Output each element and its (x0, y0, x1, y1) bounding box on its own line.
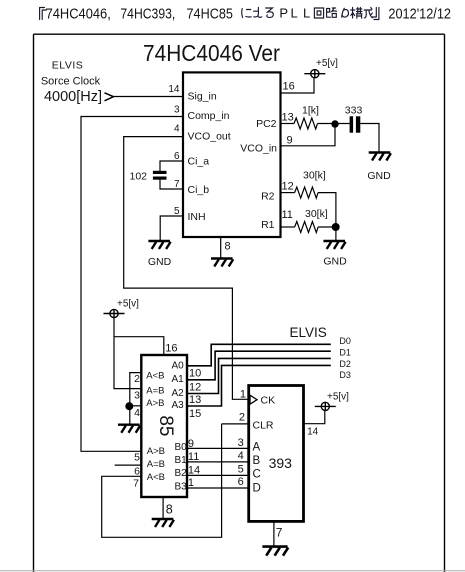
svg-text:74HC393,: 74HC393, (120, 7, 175, 23)
svg-text:GND: GND (367, 170, 391, 182)
svg-text:D3: D3 (339, 370, 351, 380)
svg-text:4: 4 (174, 124, 180, 135)
svg-text:6: 6 (174, 151, 180, 162)
svg-text:2012'12/12: 2012'12/12 (388, 7, 451, 23)
svg-text:15: 15 (189, 408, 201, 420)
svg-text:A1: A1 (172, 374, 185, 385)
svg-text:14: 14 (188, 464, 200, 476)
svg-text:+5[v]: +5[v] (316, 58, 338, 69)
svg-text:30[k]: 30[k] (303, 170, 326, 182)
svg-text:ELVIS: ELVIS (290, 325, 327, 340)
svg-text:C: C (253, 469, 261, 481)
svg-text:3: 3 (174, 105, 180, 116)
svg-text:7: 7 (133, 478, 139, 490)
svg-text:ELVIS: ELVIS (52, 60, 84, 72)
svg-text:B1: B1 (175, 455, 188, 466)
svg-text:13: 13 (189, 394, 201, 406)
svg-text:6: 6 (238, 476, 244, 488)
svg-text:VCO_out: VCO_out (188, 131, 231, 143)
svg-text:2: 2 (134, 373, 140, 385)
svg-text:30[k]: 30[k] (305, 208, 328, 220)
svg-text:14: 14 (168, 84, 180, 95)
svg-text:13: 13 (282, 112, 294, 124)
svg-text:INH: INH (188, 211, 206, 223)
svg-text:11: 11 (282, 209, 293, 221)
svg-text:PC2: PC2 (256, 118, 277, 130)
svg-text:5: 5 (134, 452, 140, 464)
svg-text:R1: R1 (261, 219, 275, 231)
svg-text:8: 8 (166, 503, 173, 517)
svg-text:12: 12 (282, 181, 294, 193)
svg-text:D: D (253, 483, 261, 495)
svg-text:16: 16 (165, 343, 177, 355)
svg-text:D2: D2 (339, 359, 351, 369)
svg-text:CK: CK (261, 395, 276, 407)
svg-text:A>B: A>B (146, 398, 164, 409)
svg-text:10: 10 (189, 368, 201, 380)
svg-text:393: 393 (269, 455, 293, 471)
svg-text:A0: A0 (172, 361, 185, 372)
svg-text:B0: B0 (175, 442, 188, 453)
svg-text:85: 85 (155, 415, 176, 436)
svg-text:74HC85: 74HC85 (187, 7, 233, 23)
svg-text:B3: B3 (175, 481, 188, 492)
svg-text:12: 12 (189, 381, 201, 393)
svg-text:VCO_in: VCO_in (240, 143, 277, 155)
svg-text:GND: GND (323, 256, 347, 268)
svg-text:14: 14 (307, 427, 319, 438)
svg-text:A: A (253, 442, 261, 454)
svg-text:L: L (303, 6, 310, 21)
svg-text:Ci_b: Ci_b (188, 184, 210, 196)
svg-text:D0: D0 (339, 336, 351, 346)
svg-text:1: 1 (240, 389, 246, 401)
svg-text:8: 8 (225, 241, 231, 253)
svg-text:2: 2 (239, 412, 245, 424)
svg-text:A3: A3 (172, 400, 185, 411)
svg-text:333: 333 (345, 105, 363, 117)
svg-text:1: 1 (188, 477, 194, 489)
svg-text:7: 7 (276, 526, 283, 540)
svg-text:B2: B2 (175, 468, 188, 479)
svg-text:11: 11 (188, 451, 199, 463)
svg-text:4: 4 (238, 450, 244, 462)
svg-text:102: 102 (130, 171, 148, 183)
svg-text:6: 6 (134, 465, 140, 477)
svg-text:A<B: A<B (147, 472, 165, 483)
svg-text:5: 5 (174, 206, 180, 217)
svg-text:1[k]: 1[k] (302, 105, 319, 117)
svg-text:16: 16 (283, 81, 295, 93)
svg-text:+5[v]: +5[v] (117, 299, 139, 310)
svg-text:9: 9 (188, 438, 194, 450)
svg-text:D1: D1 (339, 347, 351, 357)
svg-text:Ci_a: Ci_a (188, 156, 210, 168)
svg-text:GND: GND (148, 256, 172, 268)
svg-text:74HC4046,: 74HC4046, (46, 7, 111, 23)
svg-text:4: 4 (134, 407, 140, 419)
svg-text:4000[Hz]: 4000[Hz] (44, 89, 102, 105)
svg-text:L: L (291, 6, 298, 21)
svg-text:Sig_in: Sig_in (188, 91, 217, 103)
svg-text:9: 9 (287, 135, 293, 147)
svg-text:CLR: CLR (253, 420, 274, 432)
svg-text:A2: A2 (172, 388, 185, 399)
svg-text:3: 3 (134, 390, 140, 402)
svg-text:A<B: A<B (146, 371, 164, 382)
svg-text:7: 7 (174, 179, 180, 190)
svg-text:B: B (253, 455, 261, 467)
svg-text:3: 3 (238, 437, 244, 449)
svg-text:A=B: A=B (147, 459, 165, 470)
svg-text:R2: R2 (261, 191, 275, 203)
svg-text:74HC4046 Ver: 74HC4046 Ver (143, 40, 280, 66)
svg-text:Sorce Clock: Sorce Clock (41, 76, 101, 88)
svg-text:Comp_in: Comp_in (188, 110, 230, 122)
svg-text:5: 5 (238, 463, 244, 475)
svg-text:P: P (279, 6, 288, 21)
svg-text:A>B: A>B (147, 446, 165, 457)
svg-text:A=B: A=B (146, 385, 164, 396)
svg-text:+5[v]: +5[v] (327, 392, 349, 403)
